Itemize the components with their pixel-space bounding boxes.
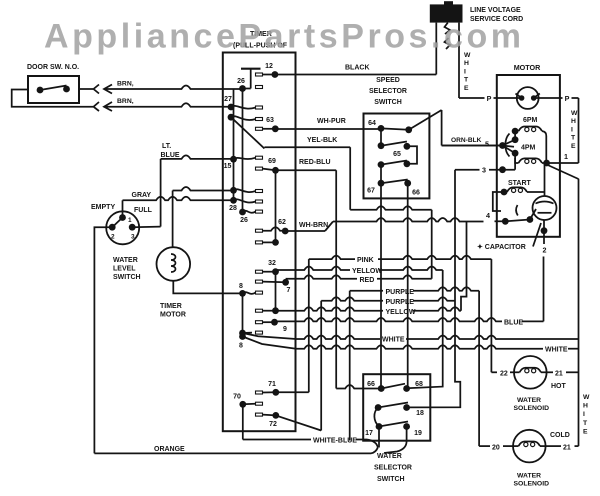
protector whisker left [516, 94, 522, 99]
wire cord middle zigzag b [445, 38, 451, 49]
wire pad to 310 [263, 310, 276, 312]
svg-text:PURPLE: PURPLE [386, 289, 415, 296]
blade 5 to 6PM contact [503, 140, 516, 146]
timer motor body [157, 247, 191, 281]
WS terminal 68 [403, 385, 410, 392]
contact 27a [231, 106, 256, 109]
svg-text:YELLOW: YELLOW [352, 268, 382, 275]
wire 21 hot b [566, 371, 579, 373]
wire blue riser to cap 2 [543, 257, 545, 322]
4PM left dot [512, 150, 519, 157]
SS link left top [380, 128, 382, 145]
svg-text:72: 72 [269, 421, 277, 428]
svg-text:WH-BRN: WH-BRN [299, 222, 328, 229]
svg-text:I: I [583, 411, 585, 418]
WS link curve [374, 408, 379, 427]
svg-text:20: 20 [492, 445, 500, 452]
contact 190 [234, 189, 256, 192]
wire pad to 62 [263, 227, 286, 231]
svg-text:6PM: 6PM [523, 117, 538, 124]
wire wh-brn branch jog [461, 222, 467, 311]
wire BLUE right [522, 320, 544, 322]
water selector switch box [363, 374, 430, 441]
capacitor plate bottom [538, 212, 552, 214]
wire 21 cold b [575, 445, 579, 447]
wire BLUE [275, 318, 503, 322]
wire PINK left [309, 256, 355, 260]
wire P down to 1 [578, 98, 580, 163]
WLS blade [112, 218, 122, 228]
wire 19 stub hook [384, 427, 407, 454]
blade 5 stub [503, 146, 515, 147]
WS blade bottom [379, 422, 408, 427]
wire node1 diagonal to bus [547, 165, 579, 180]
wire WHITE2 right [568, 348, 579, 350]
wire 22 [491, 371, 497, 373]
svg-text:I: I [571, 126, 573, 133]
wire BLACK timer12 to cord [275, 74, 436, 76]
wire pad to 72 [263, 414, 276, 417]
wire LT.BLUE to timer 15 [161, 155, 234, 159]
svg-text:SELECTOR: SELECTOR [374, 465, 412, 472]
timer contact gray-b [230, 197, 237, 204]
wire PURPLE2 right [413, 297, 455, 301]
WS terminal 19 [403, 423, 410, 430]
wire 4PM left [515, 153, 518, 163]
svg-text:7: 7 [287, 287, 291, 294]
svg-text:68: 68 [415, 381, 423, 388]
timer terminal 8 [239, 290, 246, 297]
svg-text:ORN-BLK: ORN-BLK [451, 137, 482, 144]
wire pad to 63 [263, 128, 276, 130]
svg-text:22: 22 [500, 371, 508, 378]
wire yel-blk descend [349, 147, 351, 210]
wire start C-link [493, 192, 504, 211]
timer contact 26b [239, 209, 246, 216]
WS contact mid-left [375, 404, 382, 411]
wire 70 down [242, 404, 244, 439]
timer cam bar [241, 68, 261, 70]
svg-text:WH-PUR: WH-PUR [317, 118, 346, 125]
wire ORANGE bottom [94, 452, 371, 454]
wire ORN-BLK [442, 145, 503, 147]
wire WLS3 right [132, 226, 160, 229]
svg-text:PINK: PINK [357, 257, 374, 264]
contact 26b [243, 211, 256, 213]
wire yel-blk lower run [350, 206, 432, 210]
wire WH-BRN left [285, 230, 325, 232]
wire 4PM to node1 [542, 162, 547, 164]
wire timer motor top riser [172, 191, 174, 248]
wire 8c slant out [243, 337, 297, 349]
wire purple1 descend to white-blue [349, 291, 351, 441]
door switch blade [40, 86, 67, 91]
svg-text:EMPTY: EMPTY [91, 204, 115, 211]
svg-text:START: START [508, 180, 532, 187]
timer terminal 32 [272, 268, 279, 275]
svg-text:9: 9 [283, 326, 287, 333]
svg-text:YELLOW: YELLOW [386, 309, 416, 316]
wire pad to 69 [263, 169, 276, 171]
WLS terminal 3 [129, 224, 136, 231]
timer terminal 71 [272, 389, 279, 396]
WS contact mid-right [403, 404, 410, 411]
svg-text:BLUE: BLUE [161, 152, 180, 159]
wire 70 to pad [243, 403, 256, 406]
svg-text:63: 63 [266, 117, 274, 124]
svg-text:FULL: FULL [134, 207, 153, 214]
motor protector [517, 87, 539, 109]
svg-text:P: P [565, 94, 570, 103]
motor node 1 dot [543, 160, 550, 167]
centrifugal contact [527, 216, 534, 223]
wire door sw to connector top [79, 88, 93, 90]
wire pad to 242 [263, 241, 276, 243]
svg-text:LT.: LT. [162, 143, 171, 150]
wire WH-PUR [275, 128, 381, 130]
svg-text:62: 62 [278, 219, 286, 226]
wire pad to 7 [263, 281, 286, 284]
wire PURPLE1 right [413, 287, 479, 291]
svg-text:WATER: WATER [517, 473, 541, 480]
protector whisker right [534, 94, 540, 99]
hot solenoid winding [520, 368, 542, 373]
svg-text:WATER: WATER [113, 257, 138, 264]
svg-text:5: 5 [485, 140, 489, 149]
wire RED right [377, 275, 432, 279]
timer contact 8c [239, 333, 246, 340]
timer bus 26 [242, 89, 244, 213]
wire WHITE-BLUE left [243, 439, 311, 441]
wire 71 riser to PINK [308, 259, 310, 392]
wire RED left [286, 275, 357, 279]
timer terminal 9 [271, 319, 278, 326]
wire 71 out [276, 391, 309, 393]
wire wh-brn jog [325, 222, 333, 232]
wire 6PM to node1 [542, 131, 546, 163]
timer bus 8 [242, 293, 244, 336]
SS contact ml [378, 142, 385, 149]
svg-text:4PM: 4PM [521, 145, 536, 152]
WLS terminal 2 [109, 224, 116, 231]
svg-text:BLACK: BLACK [345, 65, 370, 72]
wire cord black down [435, 23, 437, 75]
wire pad to 12 [263, 74, 275, 76]
capacitor bottom terminal [541, 227, 548, 234]
wire SS67 to WS66 vertical [380, 183, 382, 388]
svg-text:YEL-BLK: YEL-BLK [307, 137, 337, 144]
wire white-blue hook [367, 440, 378, 448]
svg-text:32: 32 [268, 260, 276, 267]
white neutral bus [578, 179, 580, 446]
contact 200 [234, 199, 256, 202]
svg-text:69: 69 [268, 158, 276, 165]
wire orn-blk riser [441, 110, 443, 146]
wire 8b to pad [243, 332, 253, 334]
wire WLS2 to orange down [94, 227, 112, 453]
WS terminal 17 [376, 423, 383, 430]
wire BRN top to timer 26 [110, 86, 243, 90]
svg-text:66: 66 [412, 190, 420, 197]
contact guide arc [505, 134, 509, 157]
svg-text:COLD: COLD [550, 432, 570, 439]
svg-text:SWITCH: SWITCH [113, 274, 141, 281]
connector chevron bottom [94, 102, 100, 111]
svg-text:SWITCH: SWITCH [374, 99, 402, 106]
wire start to cap riser [527, 191, 545, 193]
wire YELLOW1 right [379, 267, 443, 271]
timer terminal 62 [282, 228, 289, 235]
svg-text:1: 1 [128, 217, 132, 224]
door switch right contact [63, 86, 70, 93]
wire RED-BLU [276, 169, 337, 171]
protector contact right [531, 95, 537, 101]
wire PINK descend to hot 22 [490, 259, 492, 372]
svg-text:RED-BLU: RED-BLU [299, 159, 331, 166]
svg-text:26: 26 [237, 78, 245, 85]
motor terminal 5 [499, 142, 506, 149]
wire motor 3 to WS 18 [407, 170, 461, 408]
wire 21 cold a [546, 445, 561, 447]
wire SS66 to WS68 vertical [407, 183, 409, 388]
svg-text:1: 1 [564, 152, 568, 161]
svg-text:WHITE: WHITE [382, 337, 405, 344]
connector arrow top [104, 85, 112, 94]
start winding [507, 187, 527, 192]
wire WHITE1 left [296, 336, 380, 340]
svg-text:SWITCH: SWITCH [377, 476, 405, 483]
WS blade top [381, 384, 405, 389]
connector arrow bottom [104, 102, 112, 111]
svg-text:GRAY: GRAY [132, 192, 152, 199]
svg-text:28: 28 [229, 205, 237, 212]
svg-text:4: 4 [486, 211, 490, 220]
6PM dot link [514, 131, 516, 140]
wire PINK right [378, 256, 491, 260]
SS blade mid2 [381, 161, 407, 165]
svg-text:71: 71 [268, 381, 276, 388]
wire door sw left loop [12, 90, 93, 107]
svg-text:SOLENOID: SOLENOID [514, 481, 550, 488]
wire WHITE2 [296, 345, 543, 349]
wire WLS3 riser lt-blue [160, 159, 162, 227]
svg-text:ORANGE: ORANGE [154, 446, 185, 453]
capacitor body [533, 196, 557, 220]
WLS terminal 1 [119, 214, 126, 221]
line cord plug [430, 4, 463, 22]
svg-text:SPEED: SPEED [376, 77, 400, 84]
wire 4 into motor [495, 220, 506, 222]
svg-text:3: 3 [482, 166, 486, 175]
svg-text:8: 8 [239, 283, 243, 290]
svg-text:18: 18 [416, 410, 424, 417]
wire contact to cap [530, 209, 536, 220]
svg-text:70: 70 [233, 394, 241, 401]
svg-text:W: W [571, 110, 578, 117]
svg-text:67: 67 [367, 188, 375, 195]
SS terminal 64 [378, 125, 385, 132]
wire pad to 9 [263, 321, 275, 323]
wire WHITE-BLUE right [356, 439, 367, 441]
wire WH-BRN to motor 4 [333, 218, 484, 222]
svg-text:WHITE-BLUE: WHITE-BLUE [313, 438, 357, 445]
svg-text:LINE VOLTAGE: LINE VOLTAGE [470, 7, 521, 14]
wire WHITE1 right [406, 336, 579, 340]
connector chevron top [94, 85, 100, 94]
svg-text:H: H [464, 60, 469, 67]
svg-text:✦ CAPACITOR: ✦ CAPACITOR [477, 243, 526, 251]
WS blade mid [378, 403, 408, 408]
timer contact pads [256, 73, 263, 76]
SS terminal 66 [404, 180, 411, 187]
wire WLS1 riser [122, 200, 124, 217]
wire 20 [479, 445, 490, 447]
wire cap to 2 [543, 220, 545, 244]
motor terminal 4 dot [502, 218, 509, 225]
svg-text:E: E [464, 85, 469, 92]
wire node1 to 1 [547, 162, 579, 164]
timer contact 27b [228, 114, 235, 121]
wire 17 down [378, 427, 380, 448]
timer contact gray-a [230, 187, 237, 194]
timer terminal 72 [272, 412, 279, 419]
timer box [223, 53, 296, 432]
wire protector to P right b [572, 97, 579, 99]
wire cord middle zigzag a [445, 23, 451, 34]
cold solenoid winding [519, 442, 541, 447]
wire motor-top to timer [173, 187, 234, 191]
wire protector to P right a [534, 97, 563, 99]
wire 72 diagonal out [276, 415, 321, 430]
svg-text:WATER: WATER [517, 397, 541, 404]
svg-text:TIMER: TIMER [160, 303, 182, 310]
start left dot [501, 189, 508, 196]
SS contact top right [405, 126, 412, 133]
wire YELLOW2 right [413, 307, 461, 311]
SS terminal 67 [378, 180, 385, 187]
svg-text:MOTOR: MOTOR [160, 312, 186, 319]
SS link left bottom [380, 165, 382, 184]
capacitor plate top [536, 202, 554, 204]
svg-text:H: H [571, 118, 576, 125]
timer terminal 12 [272, 71, 279, 78]
wire SS to orn-blk diagonal [409, 110, 442, 130]
svg-text:I: I [464, 68, 466, 75]
wire YELLOW2 left [276, 307, 384, 311]
speed selector switch box [364, 114, 430, 199]
wire YELLOW1 left [276, 267, 351, 271]
wire timer motor bottom to 8 [173, 281, 242, 294]
SS right bracket [407, 146, 417, 164]
SS blade mid1 [381, 142, 407, 146]
wire 21 hot a [547, 371, 553, 373]
wire 3 riser to 4PM [514, 158, 516, 170]
water level switch body [106, 211, 139, 244]
contact 8 [243, 292, 256, 294]
wire node1 to cap top [544, 163, 546, 196]
timer terminal 63 [272, 125, 279, 132]
wire GRAY to timer [123, 197, 234, 201]
svg-text:SELECTOR: SELECTOR [369, 88, 407, 95]
timer contact 8b [239, 330, 246, 337]
WS terminal 66 [378, 385, 385, 392]
wire 3 out b [489, 169, 515, 171]
wire 27b diagonal to yel-blk [231, 117, 264, 148]
svg-text:P: P [487, 94, 492, 103]
wire YEL-BLK [264, 146, 350, 148]
4PM winding [519, 158, 543, 163]
timer motor coil [171, 254, 176, 272]
wire purple1 descend to cold 20 [478, 291, 480, 446]
centrifugal blade [505, 220, 530, 222]
timer terminal 26 [239, 85, 246, 92]
wire white to protector a [459, 97, 485, 99]
svg-text:19: 19 [414, 430, 422, 437]
timer terminal 27 [228, 104, 235, 111]
wire 8b slant out [243, 333, 297, 339]
svg-text:26: 26 [240, 217, 248, 224]
6PM winding [519, 127, 543, 132]
SS blade 64 [381, 128, 409, 129]
blade 5 to 4PM contact [503, 146, 516, 154]
svg-text:WATER: WATER [377, 453, 402, 460]
wire 3 out a [455, 169, 480, 171]
svg-text:BRN,: BRN, [117, 81, 134, 88]
contact 27b [231, 116, 256, 120]
wire PURPLE1 left [350, 290, 383, 292]
wire yellow1 descend to WS 68 [407, 270, 443, 388]
hot water solenoid body [514, 356, 547, 389]
svg-text:WHITE: WHITE [545, 347, 568, 354]
svg-text:15: 15 [224, 163, 232, 170]
motor terminal 3 [499, 166, 506, 173]
svg-text:2: 2 [543, 246, 547, 255]
protector contact left [519, 95, 525, 101]
SS contact mr2 [404, 160, 411, 167]
centrifugal arc [516, 205, 518, 216]
wire PURPLE2 left [321, 297, 383, 301]
svg-text:8: 8 [239, 343, 243, 350]
svg-text:PURPLE: PURPLE [386, 299, 415, 306]
wire orn-blk into 5 [442, 145, 503, 147]
timer left bus [233, 89, 235, 201]
wire red-blu descend to WS66 [335, 170, 337, 388]
svg-text:SOLENOID: SOLENOID [514, 405, 550, 412]
timer contact 310 [272, 307, 279, 314]
6PM left dot [512, 128, 519, 135]
svg-text:LEVEL: LEVEL [113, 266, 136, 273]
svg-text:E: E [571, 143, 576, 150]
wire orange hook [371, 448, 378, 454]
svg-text:21: 21 [555, 371, 563, 378]
svg-text:17: 17 [365, 430, 373, 437]
wire cord white down [458, 23, 460, 98]
svg-text:H: H [583, 403, 588, 410]
SS contact ml2 [378, 161, 385, 168]
svg-text:HOT: HOT [551, 383, 567, 390]
timer contact 242 [272, 239, 279, 246]
svg-text:W: W [583, 394, 590, 401]
timer terminal 7 [282, 279, 289, 286]
SS blade bottom [381, 180, 408, 184]
door switch left contact [37, 87, 44, 94]
svg-text:65: 65 [393, 151, 401, 158]
svg-text:RED: RED [360, 277, 375, 284]
svg-text:12: 12 [265, 63, 273, 70]
wire red-blu to WS66 [336, 385, 381, 389]
timer terminal 69 [272, 167, 279, 174]
wire pad to 71 [263, 391, 276, 393]
